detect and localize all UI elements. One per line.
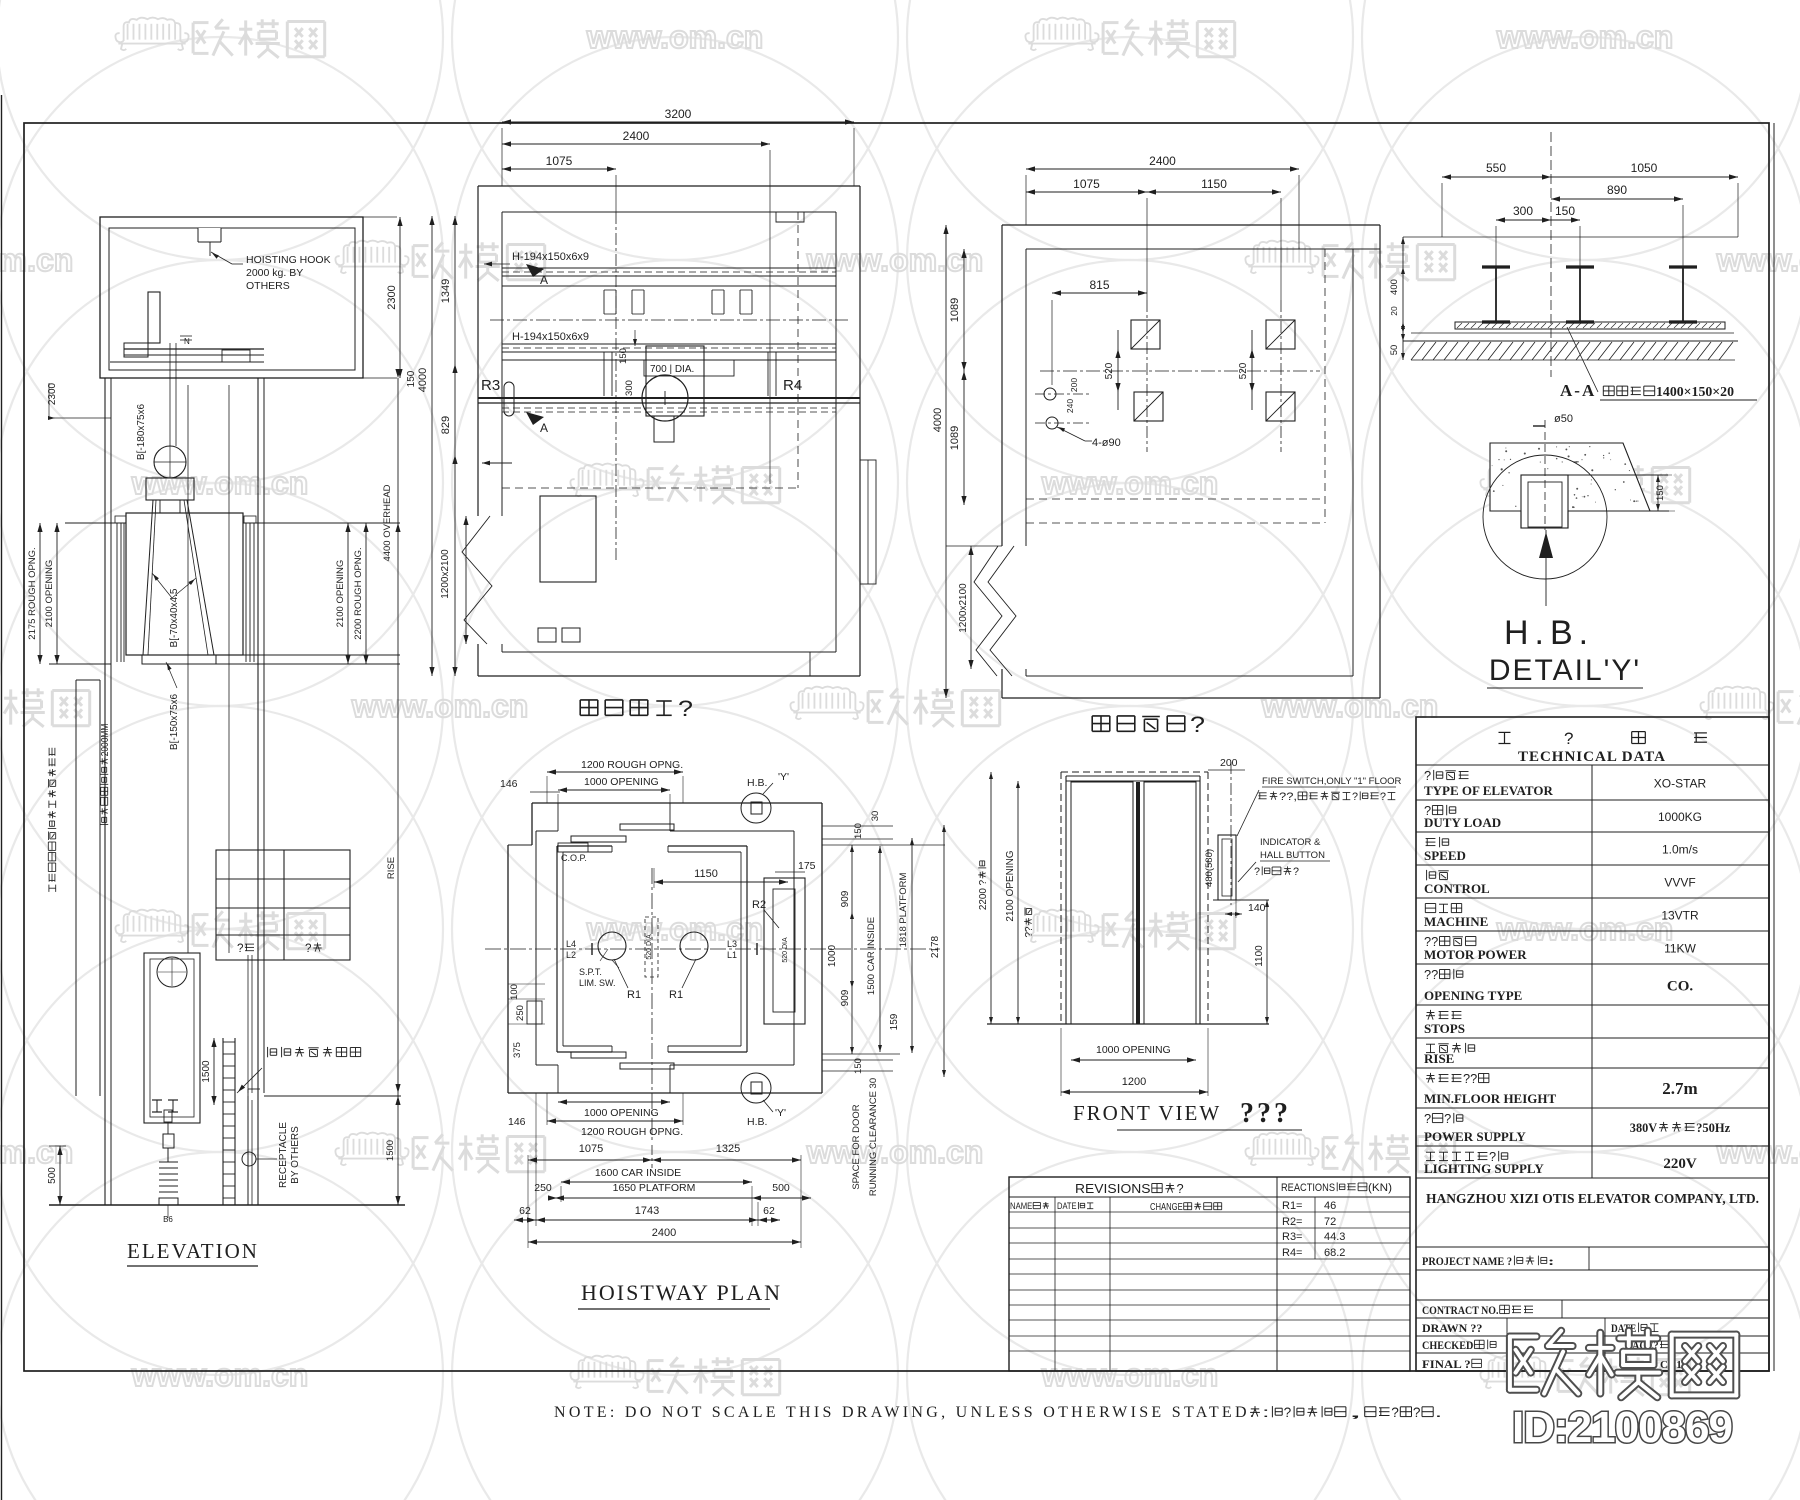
svg-text:NOTE: DO NOT SCALE THIS DRAWI: NOTE: DO NOT SCALE THIS DRAWING, UNLESS … bbox=[554, 1404, 1257, 1421]
svg-text:2000 kg. BY: 2000 kg. BY bbox=[246, 267, 303, 279]
svg-text:2100 OPENING: 2100 OPENING bbox=[335, 560, 346, 628]
svg-text:11KW: 11KW bbox=[1664, 942, 1696, 956]
svg-text:HANGZHOU XIZI OTIS ELEVATOR: HANGZHOU XIZI OTIS ELEVATOR COMPANY, LTD… bbox=[1426, 1191, 1759, 1206]
svg-text:www.om.cn: www.om.cn bbox=[0, 242, 73, 278]
svg-text:PROJECT NAME ?: PROJECT NAME ? bbox=[1422, 1254, 1512, 1268]
svg-text:4000: 4000 bbox=[417, 368, 429, 392]
svg-text:2400: 2400 bbox=[652, 1227, 676, 1239]
svg-text:480(580): 480(580) bbox=[1204, 849, 1215, 887]
svg-text:N: N bbox=[184, 337, 190, 346]
svg-text:20: 20 bbox=[1389, 306, 1399, 316]
svg-text:www.om.cn: www.om.cn bbox=[131, 465, 309, 501]
svg-text:1075: 1075 bbox=[579, 1143, 603, 1155]
svg-text:1200x2100: 1200x2100 bbox=[440, 549, 451, 599]
svg-text:380V: 380V bbox=[1630, 1120, 1658, 1135]
svg-text:www.om.cn: www.om.cn bbox=[1496, 911, 1674, 947]
svg-text:4400 OVERHEAD: 4400 OVERHEAD bbox=[382, 484, 393, 561]
svg-text:1075: 1075 bbox=[1073, 177, 1100, 191]
svg-text:???: ??? bbox=[1240, 1098, 1291, 1129]
svg-text:375: 375 bbox=[512, 1042, 523, 1058]
svg-text:909: 909 bbox=[840, 989, 851, 1006]
svg-text:62: 62 bbox=[763, 1205, 775, 1217]
svg-text:A: A bbox=[540, 273, 548, 287]
svg-text:(KN): (KN) bbox=[1368, 1182, 1392, 1194]
svg-text:?: ? bbox=[1424, 1111, 1431, 1126]
svg-text:159: 159 bbox=[889, 1013, 900, 1030]
svg-text:1200x2100: 1200x2100 bbox=[958, 583, 969, 633]
svg-text:www.om.cn: www.om.cn bbox=[1261, 688, 1439, 724]
svg-text:?: ? bbox=[1424, 768, 1431, 783]
svg-text:LIGHTING SUPPLY: LIGHTING SUPPLY bbox=[1424, 1161, 1544, 1176]
svg-text:815: 815 bbox=[1089, 278, 1109, 292]
svg-text:www.om.cn: www.om.cn bbox=[1716, 242, 1800, 278]
svg-text:890: 890 bbox=[1607, 183, 1627, 197]
svg-text:2178: 2178 bbox=[930, 935, 941, 958]
svg-text:??,: ??, bbox=[1279, 791, 1297, 803]
svg-text:400: 400 bbox=[1389, 279, 1400, 295]
svg-text:??: ?? bbox=[1463, 1071, 1477, 1086]
svg-text:INDICATOR &: INDICATOR & bbox=[1260, 837, 1321, 848]
svg-text:1089: 1089 bbox=[949, 298, 961, 322]
svg-text:www.om.cn: www.om.cn bbox=[806, 1134, 984, 1170]
svg-text:1400×150×20: 1400×150×20 bbox=[1656, 384, 1734, 399]
svg-text:HALL BUTTON: HALL BUTTON bbox=[1260, 850, 1325, 861]
svg-text:ELEVATION: ELEVATION bbox=[127, 1239, 259, 1263]
svg-text:,: , bbox=[1347, 1404, 1363, 1420]
svg-text:1818 PLATFORM: 1818 PLATFORM bbox=[898, 873, 909, 948]
svg-text::: : bbox=[1262, 1404, 1270, 1420]
svg-text:CO.: CO. bbox=[1667, 979, 1694, 995]
svg-text:72: 72 bbox=[1324, 1216, 1336, 1228]
svg-text:44.3: 44.3 bbox=[1324, 1231, 1345, 1243]
svg-text:A-A: A-A bbox=[1560, 381, 1596, 400]
svg-text:220V: 220V bbox=[1663, 1156, 1697, 1172]
svg-text:1200: 1200 bbox=[1122, 1076, 1146, 1088]
svg-text:TYPE OF ELEVATOR: TYPE OF ELEVATOR bbox=[1424, 783, 1553, 798]
svg-text:1075: 1075 bbox=[546, 154, 573, 168]
svg-text:www.om.cn: www.om.cn bbox=[1041, 1357, 1219, 1393]
svg-text:CHECKED: CHECKED bbox=[1422, 1338, 1474, 1352]
svg-text:ø50: ø50 bbox=[1554, 413, 1573, 425]
svg-text:?: ? bbox=[1190, 712, 1205, 737]
svg-text:TECHNICAL DATA: TECHNICAL DATA bbox=[1518, 749, 1666, 765]
svg-text:2175 ROUGH OPNG.: 2175 ROUGH OPNG. bbox=[27, 547, 38, 639]
svg-text:?: ? bbox=[1444, 1111, 1451, 1126]
svg-text:150: 150 bbox=[618, 348, 629, 364]
svg-text:2400: 2400 bbox=[1149, 154, 1176, 168]
svg-text:520: 520 bbox=[1104, 362, 1115, 379]
svg-text:LIM. SW.: LIM. SW. bbox=[579, 978, 616, 988]
svg-text:CONTROL: CONTROL bbox=[1424, 881, 1490, 896]
svg-text:150: 150 bbox=[406, 370, 417, 387]
svg-text:H-194x150x6x9: H-194x150x6x9 bbox=[512, 251, 589, 263]
svg-text:1150: 1150 bbox=[1201, 177, 1227, 191]
svg-text:1650 PLATFORM: 1650 PLATFORM bbox=[613, 1182, 696, 1194]
svg-text:1349: 1349 bbox=[440, 279, 452, 303]
svg-text:R1=: R1= bbox=[1282, 1200, 1303, 1212]
svg-text:NAME: NAME bbox=[1010, 1201, 1032, 1211]
svg-text:www.om.cn: www.om.cn bbox=[351, 688, 529, 724]
svg-text:BY OTHERS: BY OTHERS bbox=[290, 1126, 301, 1184]
svg-text:146: 146 bbox=[508, 1116, 526, 1128]
svg-text:146: 146 bbox=[500, 778, 518, 790]
svg-text:B[-150x75x6: B[-150x75x6 bbox=[169, 693, 180, 750]
svg-text:CONTRACT NO.: CONTRACT NO. bbox=[1422, 1303, 1499, 1317]
svg-text:1150: 1150 bbox=[694, 868, 718, 880]
svg-text:?50Hz: ?50Hz bbox=[1696, 1120, 1730, 1135]
svg-text:CHANGE: CHANGE bbox=[1150, 1202, 1183, 1213]
svg-text:www.om.cn: www.om.cn bbox=[586, 19, 764, 55]
svg-text:1100: 1100 bbox=[1254, 945, 1265, 967]
svg-text:MACHINE: MACHINE bbox=[1424, 914, 1488, 929]
svg-text:?: ? bbox=[1380, 791, 1386, 803]
svg-text:L3: L3 bbox=[727, 939, 737, 949]
svg-text:?: ? bbox=[1413, 1404, 1421, 1420]
svg-text:1200 ROUGH OPNG.: 1200 ROUGH OPNG. bbox=[581, 759, 683, 771]
svg-text:C.O.P.: C.O.P. bbox=[561, 853, 587, 863]
svg-text:DRAWN ??: DRAWN ?? bbox=[1422, 1321, 1482, 1335]
svg-text:R4=: R4= bbox=[1282, 1247, 1303, 1259]
svg-text:DATE: DATE bbox=[1057, 1201, 1077, 1211]
svg-text:H.B.: H.B. bbox=[747, 777, 767, 789]
svg-text:A: A bbox=[540, 421, 548, 435]
svg-text:'Y': 'Y' bbox=[775, 1107, 786, 1119]
svg-text:2.7m: 2.7m bbox=[1662, 1079, 1697, 1098]
svg-text:?: ? bbox=[305, 941, 312, 955]
svg-text:50: 50 bbox=[1389, 345, 1400, 356]
svg-text:H.B.: H.B. bbox=[747, 1116, 767, 1128]
svg-text:1000 OPENING: 1000 OPENING bbox=[584, 1107, 659, 1119]
svg-text:ID:2100869: ID:2100869 bbox=[1512, 1403, 1732, 1452]
svg-text:909: 909 bbox=[840, 890, 851, 907]
svg-text:B[-70x40x4.5: B[-70x40x4.5 bbox=[169, 588, 180, 647]
svg-text:RUNNING CLEARANCE 30: RUNNING CLEARANCE 30 bbox=[868, 1078, 879, 1196]
svg-text:?: ? bbox=[1391, 1404, 1399, 1420]
svg-text:1325: 1325 bbox=[716, 1143, 740, 1155]
svg-text:L4: L4 bbox=[566, 939, 576, 949]
svg-text:2200 ROUGH OPNG.: 2200 ROUGH OPNG. bbox=[353, 547, 364, 639]
svg-text:?: ? bbox=[1352, 791, 1358, 803]
svg-text:2200 ?: 2200 ? bbox=[978, 879, 989, 910]
svg-text:520 DIA: 520 DIA bbox=[646, 934, 653, 960]
svg-text:SPEED: SPEED bbox=[1424, 848, 1466, 863]
svg-text:MIN.FLOOR HEIGHT: MIN.FLOOR HEIGHT bbox=[1424, 1091, 1557, 1106]
svg-text:2100 OPENING: 2100 OPENING bbox=[44, 560, 55, 628]
svg-text:829: 829 bbox=[440, 416, 452, 434]
svg-text:150: 150 bbox=[1555, 204, 1575, 218]
svg-text:L2: L2 bbox=[566, 950, 576, 960]
svg-text:www.om.cn: www.om.cn bbox=[806, 242, 984, 278]
svg-text:300: 300 bbox=[624, 380, 635, 396]
svg-text:500: 500 bbox=[47, 1167, 58, 1184]
svg-text:R3=: R3= bbox=[1282, 1231, 1303, 1243]
svg-text:VVVF: VVVF bbox=[1664, 876, 1695, 890]
svg-text:?: ? bbox=[1284, 1404, 1292, 1420]
svg-text:2100 OPENING: 2100 OPENING bbox=[1005, 850, 1016, 921]
svg-text:520 DIA: 520 DIA bbox=[782, 937, 789, 963]
svg-text:200: 200 bbox=[1069, 378, 1079, 392]
svg-text:520: 520 bbox=[1238, 362, 1249, 379]
svg-text:4000: 4000 bbox=[932, 408, 944, 432]
svg-text:1500: 1500 bbox=[385, 1140, 396, 1161]
svg-text:RISE: RISE bbox=[1424, 1051, 1454, 1066]
svg-text:13VTR: 13VTR bbox=[1661, 909, 1699, 923]
svg-text:2300: 2300 bbox=[386, 285, 398, 309]
svg-text:?: ? bbox=[237, 941, 244, 955]
svg-text:SPACE FOR DOOR: SPACE FOR DOOR bbox=[851, 1104, 862, 1189]
svg-text:'Y': 'Y' bbox=[778, 771, 789, 783]
svg-text:HOISTWAY PLAN: HOISTWAY PLAN bbox=[581, 1280, 782, 1305]
svg-text:R1: R1 bbox=[627, 989, 641, 1001]
svg-text:S.P.T.: S.P.T. bbox=[579, 967, 602, 977]
svg-text:250: 250 bbox=[534, 1182, 552, 1194]
svg-text:OTHERS: OTHERS bbox=[246, 280, 290, 292]
svg-text:250: 250 bbox=[515, 1005, 526, 1021]
svg-text:B[-180x75x6: B[-180x75x6 bbox=[136, 403, 147, 460]
svg-text:500: 500 bbox=[772, 1182, 790, 1194]
svg-text:www.om.cn: www.om.cn bbox=[131, 1357, 309, 1393]
svg-text:RISE: RISE bbox=[386, 857, 397, 879]
svg-text:300: 300 bbox=[1513, 204, 1533, 218]
svg-text:?: ? bbox=[1254, 866, 1260, 878]
svg-text:100: 100 bbox=[509, 984, 520, 1000]
svg-text:150: 150 bbox=[1655, 485, 1666, 501]
svg-text:REVISIONS: REVISIONS bbox=[1075, 1181, 1151, 1196]
svg-text:550: 550 bbox=[1486, 161, 1506, 175]
svg-text:175: 175 bbox=[798, 860, 816, 872]
svg-text:240: 240 bbox=[1065, 399, 1075, 413]
svg-text:1000KG: 1000KG bbox=[1658, 810, 1702, 824]
svg-text:1000: 1000 bbox=[827, 944, 838, 967]
svg-text:1.0m/s: 1.0m/s bbox=[1662, 843, 1698, 857]
svg-text:?: ? bbox=[678, 696, 693, 721]
svg-text:??: ?? bbox=[1424, 967, 1438, 982]
svg-text:STOPS: STOPS bbox=[1424, 1021, 1465, 1036]
svg-text:150: 150 bbox=[853, 1058, 864, 1074]
svg-text:R3: R3 bbox=[481, 377, 500, 394]
svg-text:140: 140 bbox=[1248, 902, 1266, 914]
svg-text:.: . bbox=[1435, 1404, 1443, 1420]
svg-text:R2: R2 bbox=[752, 899, 766, 911]
svg-text:www.om.cn: www.om.cn bbox=[1041, 465, 1219, 501]
svg-text:30: 30 bbox=[870, 811, 881, 822]
svg-text:1200 ROUGH OPNG.: 1200 ROUGH OPNG. bbox=[581, 1126, 683, 1138]
svg-text:OPENING TYPE: OPENING TYPE bbox=[1424, 988, 1522, 1003]
svg-text:2000MM: 2000MM bbox=[100, 724, 111, 757]
svg-text:FRONT VIEW: FRONT VIEW bbox=[1073, 1101, 1221, 1125]
svg-text:1500 CAR INSIDE: 1500 CAR INSIDE bbox=[866, 917, 877, 995]
svg-text:www.om.cn: www.om.cn bbox=[1496, 19, 1674, 55]
svg-text:L1: L1 bbox=[727, 950, 737, 960]
svg-text:H.B.: H.B. bbox=[1504, 614, 1594, 652]
svg-text:2400: 2400 bbox=[623, 129, 650, 143]
svg-text::: : bbox=[1548, 1254, 1554, 1268]
svg-text:1500: 1500 bbox=[201, 1060, 212, 1083]
svg-text:?: ? bbox=[1293, 866, 1299, 878]
svg-text:DUTY LOAD: DUTY LOAD bbox=[1424, 815, 1501, 830]
svg-text:RECEPTACLE: RECEPTACLE bbox=[278, 1122, 289, 1188]
svg-text:200: 200 bbox=[1220, 757, 1238, 769]
svg-text:MOTOR POWER: MOTOR POWER bbox=[1424, 947, 1527, 962]
svg-text:1000 OPENING: 1000 OPENING bbox=[584, 776, 659, 788]
svg-text:3200: 3200 bbox=[665, 107, 692, 121]
svg-text:POWER SUPPLY: POWER SUPPLY bbox=[1424, 1129, 1526, 1144]
svg-text:www.om.cn: www.om.cn bbox=[0, 1134, 73, 1170]
svg-text:?: ? bbox=[1177, 1181, 1184, 1196]
svg-text:1600 CAR INSIDE: 1600 CAR INSIDE bbox=[595, 1167, 681, 1179]
svg-text:1000 OPENING: 1000 OPENING bbox=[1096, 1044, 1171, 1056]
svg-text:700 | DIA.: 700 | DIA. bbox=[650, 364, 694, 375]
svg-text:150: 150 bbox=[853, 823, 864, 839]
svg-text:46: 46 bbox=[1324, 1200, 1336, 1212]
svg-text:REACTIONS: REACTIONS bbox=[1281, 1182, 1335, 1194]
svg-text:R4: R4 bbox=[783, 377, 802, 394]
svg-text:1089: 1089 bbox=[949, 426, 961, 450]
svg-text:www.om.cn: www.om.cn bbox=[1716, 1134, 1800, 1170]
svg-text:1743: 1743 bbox=[635, 1205, 659, 1217]
svg-text:1050: 1050 bbox=[1631, 161, 1658, 175]
svg-text:68.2: 68.2 bbox=[1324, 1247, 1345, 1259]
svg-text:H-194x150x6x9: H-194x150x6x9 bbox=[512, 331, 589, 343]
svg-text:62: 62 bbox=[519, 1205, 531, 1217]
svg-text:DETAIL'Y': DETAIL'Y' bbox=[1489, 654, 1641, 687]
svg-text:R1: R1 bbox=[669, 989, 683, 1001]
svg-text:?: ? bbox=[1564, 729, 1573, 748]
svg-text:XO-STAR: XO-STAR bbox=[1654, 777, 1707, 791]
svg-text:??: ?? bbox=[1024, 926, 1035, 937]
svg-text:4-ø90: 4-ø90 bbox=[1092, 437, 1121, 449]
svg-text:R2=: R2= bbox=[1282, 1216, 1303, 1228]
svg-text:FINAL ?: FINAL ? bbox=[1422, 1357, 1471, 1371]
svg-text:HOISTING HOOK: HOISTING HOOK bbox=[246, 254, 331, 266]
svg-text:FIRE SWITCH,ONLY "1" FLOOR: FIRE SWITCH,ONLY "1" FLOOR bbox=[1262, 776, 1402, 787]
